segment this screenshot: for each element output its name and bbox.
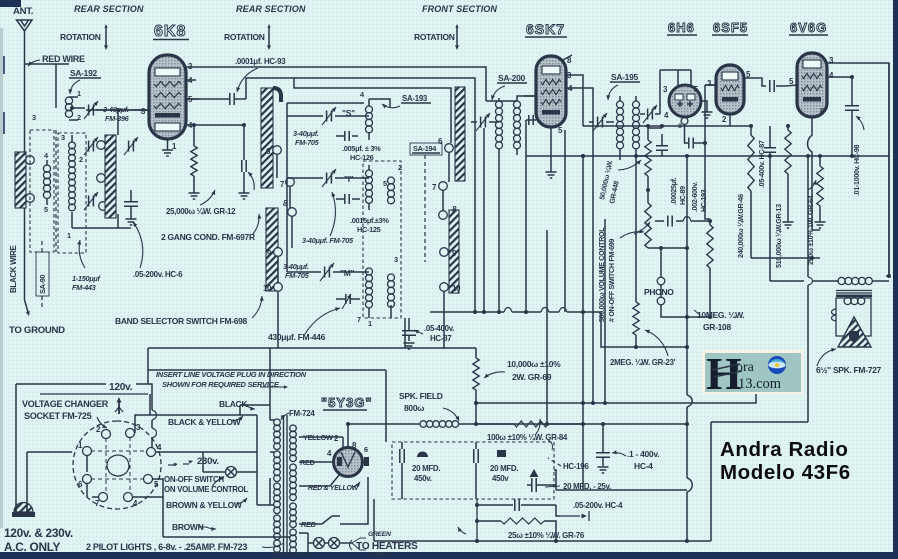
svg-text:5: 5 — [383, 179, 387, 188]
capacitor HC-87b — [764, 126, 776, 163]
svg-text:20 MFD.: 20 MFD. — [412, 464, 440, 473]
socket pin 7 — [95, 493, 108, 509]
svg-text:HC-196: HC-196 — [563, 462, 589, 471]
antenna shield plate — [15, 152, 26, 208]
label .005uf HC-126 — [342, 144, 381, 162]
svg-text:10: 10 — [263, 284, 272, 293]
label tube 6SF5 — [712, 20, 748, 35]
dashed box RF coil — [58, 133, 86, 253]
label 120v — [109, 382, 133, 393]
pin 4 of 6SK7 — [566, 84, 593, 156]
coil IF2 sec — [633, 101, 640, 149]
pin 4 antenna box — [44, 151, 49, 160]
svg-text:TO HEATERS: TO HEATERS — [356, 541, 418, 552]
wire 6H6 top bus — [660, 70, 691, 114]
svg-text:.05-400v.: .05-400v. — [424, 324, 454, 333]
svg-text:.002-600v.: .002-600v. — [692, 182, 699, 212]
pin 5 I — [383, 179, 387, 188]
label RED YELLOW — [308, 482, 360, 492]
tube 5Y3G — [334, 448, 370, 477]
coil primary C — [274, 483, 281, 514]
label GREEN b — [352, 543, 391, 559]
pin 5 of 6H6 — [691, 70, 699, 94]
trimmer M — [320, 263, 334, 281]
pin 3 antenna box — [32, 113, 36, 122]
tube 6K8 — [149, 55, 186, 139]
label 230v — [197, 456, 219, 467]
pilot lamp switch — [226, 467, 237, 478]
svg-text:.05-400v. HC-87: .05-400v. HC-87 — [758, 140, 766, 188]
svg-text:REAR SECTION: REAR SECTION — [236, 4, 306, 14]
svg-text:6K8: 6K8 — [154, 23, 186, 40]
shield plate det lower — [449, 210, 459, 293]
svg-text:REAR SECTION: REAR SECTION — [74, 4, 144, 14]
phono jack upper — [657, 277, 665, 285]
wire chassis bus y348 — [148, 347, 476, 349]
label ROTATION right — [414, 32, 455, 42]
phono pickup arrow — [560, 511, 589, 521]
resistor GR-108 — [687, 221, 713, 319]
svg-text:SA-90: SA-90 — [38, 275, 47, 294]
svg-text:.00025μf.: .00025μf. — [671, 177, 678, 205]
trimmer IF2 right — [643, 105, 657, 123]
wire bottom bus y541 — [374, 539, 711, 543]
svg-text:SA-193: SA-193 — [402, 94, 428, 103]
svg-text:SOCKET FM-725: SOCKET FM-725 — [24, 411, 92, 421]
pin 3 of 6SK7 — [566, 71, 583, 126]
wire B+ bus y424 — [476, 422, 687, 426]
svg-text:3: 3 — [32, 113, 36, 122]
wire socket net — [87, 394, 290, 537]
capacitor 6V6 grid coupling — [770, 80, 786, 92]
label M — [340, 268, 354, 278]
wire pin3 bus — [199, 67, 486, 101]
label GREEN a — [352, 531, 391, 543]
wire vert x526 — [524, 120, 528, 314]
pin 2 of 6SF5 — [722, 114, 730, 126]
svg-text:25,000ω ¼W. GR-12: 25,000ω ¼W. GR-12 — [166, 207, 236, 216]
watermark Hora H13.com — [702, 348, 803, 399]
label .002-600v HC-193 — [692, 182, 708, 212]
pin 2 RF coil — [79, 155, 83, 164]
arrow 230v a — [168, 463, 178, 467]
dashed box antenna coil — [30, 130, 54, 252]
svg-text:450v: 450v — [492, 474, 509, 483]
svg-text:800ω: 800ω — [404, 403, 424, 413]
svg-text:SA-200: SA-200 — [498, 73, 526, 83]
pin 8 of 6V6G — [808, 107, 826, 230]
volume control pot — [634, 190, 689, 250]
wire 6SK7 cathode — [550, 127, 552, 172]
label RED WIRE — [28, 54, 85, 66]
svg-text:# ON-OFF SWITCH FM-699: # ON-OFF SWITCH FM-699 — [608, 239, 616, 322]
svg-text:10MEG. ¼W.: 10MEG. ¼W. — [697, 310, 744, 320]
svg-text:6: 6 — [364, 445, 368, 454]
label 3-40uuf FM-396 — [103, 105, 130, 123]
svg-text:ora: ora — [736, 360, 755, 375]
svg-text:RED WIRE: RED WIRE — [42, 54, 85, 64]
wire antenna coil to trimmer — [72, 108, 149, 110]
resistor GR-448 — [645, 128, 651, 190]
svg-text:120v.: 120v. — [109, 382, 133, 393]
label 2 GANG COND FM-697R — [161, 214, 261, 242]
pin 8 of 6K8 — [138, 107, 149, 116]
label REAR SECTION left — [74, 4, 144, 14]
wire AVC bus — [430, 154, 689, 490]
pin 5 antenna box — [44, 205, 48, 214]
wire I section — [287, 165, 369, 210]
resistor GR-23 — [633, 154, 639, 347]
coil I left — [366, 170, 373, 203]
svg-text:2: 2 — [79, 155, 83, 164]
wire screen bus y156 — [526, 124, 889, 192]
svg-text:6SF5: 6SF5 — [713, 20, 748, 35]
wire y404 bus — [474, 392, 756, 405]
trimmer IF2 left — [593, 113, 607, 131]
wire screen step — [294, 78, 475, 122]
label SA-195 — [606, 72, 640, 100]
RF shield plate — [105, 135, 116, 218]
svg-text:SPK. FIELD: SPK. FIELD — [399, 391, 443, 401]
svg-text:A.C. ONLY: A.C. ONLY — [4, 540, 61, 554]
dashed link SA-90 — [41, 238, 43, 310]
svg-text:3: 3 — [394, 255, 398, 264]
label 10000 GR-69 — [484, 359, 561, 382]
pin 3 RF coil — [61, 133, 65, 142]
wire vert x565 — [564, 130, 566, 312]
pin 8 of 6SK7 — [563, 55, 572, 65]
svg-text:6V6G: 6V6G — [790, 20, 827, 35]
wire RF net — [72, 110, 149, 228]
label 240000 GR-46 — [737, 194, 745, 258]
wire 6V6 cathode net — [751, 230, 820, 260]
trimmer capacitor FM-396 — [84, 101, 98, 119]
socket pin 8 — [124, 493, 139, 509]
coil output primary — [838, 277, 889, 284]
pin 5 of 6SK7 — [558, 126, 563, 135]
contact 9 osc — [267, 248, 282, 258]
pin 2 I — [398, 163, 402, 172]
pin 1 of 6K8 — [168, 139, 178, 151]
label YELLOW — [303, 433, 336, 442]
resistor GR-64 — [817, 156, 823, 222]
coil secondary HV2 — [290, 464, 297, 501]
label I — [344, 174, 354, 184]
label SA-194 — [410, 143, 442, 155]
ground under HC-87 — [404, 343, 415, 349]
label SA-193 — [382, 94, 431, 108]
svg-text:ANT.: ANT. — [13, 6, 33, 17]
label 120v 230v AC ONLY — [4, 526, 73, 554]
voltage changer socket FM-725 — [73, 421, 161, 509]
label .05-400v HC-87 — [414, 324, 454, 343]
coil RF secondary — [69, 135, 76, 228]
svg-text:.01-1000v. HC-98: .01-1000v. HC-98 — [853, 144, 861, 196]
pin 2 of 5Y3G — [334, 434, 339, 443]
label Andra Radio — [720, 438, 848, 461]
trimmer 2gang top — [124, 137, 138, 155]
contact 8 osc — [283, 199, 296, 216]
power transformer core — [284, 415, 288, 556]
wire y490 bus — [554, 470, 687, 490]
label ROTATION left — [60, 32, 101, 42]
wire M section — [287, 272, 391, 318]
svg-text:230v.: 230v. — [197, 456, 219, 467]
label tube 6SK7 — [525, 21, 567, 37]
coil secondary fil — [290, 503, 297, 528]
svg-text:120v. & 230v.: 120v. & 230v. — [4, 526, 73, 540]
svg-text:1: 1 — [77, 89, 81, 98]
pin 4 of 6K8 — [186, 76, 196, 85]
coil antenna primary — [65, 97, 78, 120]
pilot light 2 — [329, 538, 340, 549]
ground under mixer cap — [239, 193, 250, 199]
pin 2 of 6SK7 — [524, 95, 536, 97]
label 2 PILOT LIGHTS — [86, 542, 284, 552]
label FM-724 — [281, 409, 315, 420]
wire left drop — [147, 348, 149, 384]
wire top right bus — [838, 63, 889, 276]
label tube 5Y3G — [321, 395, 373, 410]
coil in antenna box — [43, 160, 50, 205]
rotation arrow mid — [267, 24, 271, 50]
resistor GR-12 — [191, 125, 197, 193]
coil primary D — [274, 515, 281, 540]
svg-text:ROTATION: ROTATION — [414, 32, 455, 42]
wire to ground arrow — [25, 300, 30, 316]
label Modelo 43F6 — [720, 461, 851, 484]
ground under HC-6 — [126, 219, 137, 225]
label PHONO — [644, 287, 674, 297]
wire vert x605 — [603, 219, 607, 405]
svg-text:GREEN: GREEN — [368, 552, 391, 559]
svg-text:.0001μf. HC-93: .0001μf. HC-93 — [235, 57, 286, 66]
coil voice — [844, 297, 865, 304]
wire antenna net — [25, 64, 70, 252]
label RED b — [301, 520, 322, 529]
svg-text:.05-200v. HC-6: .05-200v. HC-6 — [133, 270, 183, 279]
label 150uuf FM-443 — [72, 240, 101, 292]
svg-text:450v.: 450v. — [414, 474, 432, 483]
wire left col — [16, 384, 72, 503]
capacitor FM-446 padder — [336, 294, 360, 309]
speaker cone — [838, 317, 871, 347]
pin 4b of 6K8 — [186, 121, 246, 146]
capacitor HC-125 — [336, 194, 360, 204]
pin 6 of 5Y3G — [364, 445, 368, 454]
rotation arrow right — [455, 24, 459, 50]
pin 7 M — [357, 315, 361, 324]
capacitor HC-87 det — [402, 318, 416, 341]
border frame right bar — [893, 0, 898, 559]
svg-text:FM-705: FM-705 — [295, 138, 320, 147]
pin 8 of 5Y3G — [352, 441, 357, 450]
dashed pointer SA-194 — [424, 155, 426, 262]
coil secondary HV1 — [290, 425, 297, 462]
label 25000 GR-12 — [166, 190, 236, 216]
label TO GROUND — [9, 325, 65, 336]
label 2MEG GR-23 — [610, 330, 676, 367]
wire plate bus y126 — [583, 124, 753, 128]
svg-text:.005μf. ± 3%: .005μf. ± 3% — [342, 144, 381, 153]
ground under HC-4 — [598, 467, 609, 473]
label ANT. — [13, 6, 33, 17]
svg-text:BAND SELECTOR SWITCH FM-698: BAND SELECTOR SWITCH FM-698 — [115, 316, 248, 326]
pin 5 of 6SF5 — [744, 70, 757, 79]
coil speaker field — [360, 421, 476, 428]
svg-text:10: 10 — [452, 284, 461, 293]
label VOLTAGE CHANGER SOCKET — [22, 399, 109, 428]
svg-text:SA-195: SA-195 — [611, 72, 639, 82]
svg-text:2MEG. ¼W. GR-23': 2MEG. ¼W. GR-23' — [610, 358, 676, 367]
label RED a — [300, 458, 315, 467]
label 10MEG GR-108 — [694, 310, 744, 332]
ground right of 6H6 — [702, 112, 713, 118]
capacitor 20MFD C — [527, 469, 556, 492]
label .0001uf HC-93 — [235, 57, 286, 92]
svg-text:3: 3 — [61, 133, 65, 142]
wire 5Y3G plates — [299, 422, 362, 486]
svg-text:430μμf. FM-446: 430μμf. FM-446 — [268, 332, 326, 342]
plug direction arrow — [115, 397, 123, 414]
tube 6H6 — [669, 85, 701, 117]
svg-text:SHOWN FOR REQUIRED SERVICE: SHOWN FOR REQUIRED SERVICE — [162, 380, 280, 389]
wire det section — [405, 152, 449, 348]
phono jack lower — [657, 297, 665, 305]
label BLACK WIRE — [9, 245, 18, 293]
socket center key — [91, 437, 147, 493]
capacitor HC-126 — [336, 131, 358, 141]
tube 6SK7 — [536, 56, 566, 127]
wire B+ to output transformer — [806, 154, 813, 422]
rotation arrow left — [104, 24, 108, 50]
label .01-1000v HC-98 — [853, 116, 864, 196]
socket pin 2 — [96, 425, 111, 439]
label tube 6H6 — [667, 20, 697, 35]
svg-text:"M": "M" — [340, 268, 354, 278]
svg-text:3-40μμf.: 3-40μμf. — [283, 262, 309, 271]
pin 5 of 6V6G — [786, 77, 797, 86]
label 20MFD 450v B — [490, 464, 518, 483]
svg-text:20 MFD.: 20 MFD. — [490, 464, 518, 473]
wire section box y370 — [148, 370, 386, 442]
svg-text:100ω ±10% ¼W. GR-84: 100ω ±10% ¼W. GR-84 — [487, 433, 568, 442]
label FRONT SECTION — [422, 4, 497, 14]
tube 6V6G — [797, 53, 827, 117]
junction RF — [70, 106, 120, 112]
label S — [342, 108, 355, 118]
resistor GR-69 — [473, 348, 479, 426]
wire IF2 — [589, 96, 660, 160]
coil M left — [366, 268, 373, 308]
socket pin 6 — [78, 475, 92, 490]
coil I right — [388, 177, 395, 204]
resistor GR-13 — [785, 126, 791, 222]
svg-text:2W. GR-69: 2W. GR-69 — [512, 372, 552, 382]
svg-text:BLACK: BLACK — [219, 399, 248, 409]
label 250 GR-64 — [807, 180, 817, 265]
wire det plumbing — [648, 128, 710, 219]
shield plate det upper — [455, 87, 465, 181]
label 500000 VOLUME CONTROL FM-699 — [598, 227, 644, 322]
coil M right — [388, 274, 395, 307]
svg-text:TO GROUND: TO GROUND — [9, 325, 65, 336]
svg-text:HC-125: HC-125 — [357, 225, 381, 234]
capacitor HC-89 — [656, 134, 668, 156]
capacitor AF coupling — [655, 216, 712, 227]
label BROWN YELLOW — [166, 498, 247, 510]
contact 7 osc — [280, 178, 294, 189]
svg-text:13.com: 13.com — [738, 376, 782, 392]
pin 3 M — [394, 255, 398, 264]
svg-text:1: 1 — [67, 231, 71, 240]
wire x556 riser — [374, 499, 479, 541]
label TO HEATERS — [350, 540, 419, 552]
socket pin 5 — [144, 475, 160, 490]
svg-text:7: 7 — [357, 315, 361, 324]
trimmer I — [322, 169, 336, 187]
wire 6SF5 plate — [757, 78, 766, 86]
capacitor HC-4 .1-400 — [596, 424, 610, 466]
coil secondary fil2 — [290, 529, 297, 554]
label 3-40uuf FM-705 M — [283, 262, 310, 280]
label SA-192 — [68, 68, 101, 94]
wire plate step — [246, 78, 451, 143]
svg-text:1: 1 — [368, 319, 372, 328]
wire S section — [287, 99, 390, 272]
coil primary B — [274, 451, 281, 482]
contact 6 osc — [266, 146, 281, 156]
svg-text:FRONT SECTION: FRONT SECTION — [422, 4, 497, 14]
capacitor HC-6 — [124, 190, 138, 219]
label 6.5 SPK FM-727 — [816, 348, 882, 375]
wire IF1 — [471, 96, 536, 314]
contact circle gang 3 — [99, 202, 108, 211]
wire xfmr primary — [270, 348, 274, 505]
contact 6 det — [438, 137, 453, 152]
pin 3 of 6K8 — [186, 62, 199, 71]
ground under 6K8 — [162, 150, 173, 156]
label .0015uf HC-125 — [350, 216, 389, 234]
svg-text:240,000ω ¼W.GR-46: 240,000ω ¼W.GR-46 — [737, 194, 745, 258]
contact 10 osc — [263, 283, 282, 293]
wire band sw bottom — [277, 291, 279, 348]
svg-text:ON VOLUME CONTROL: ON VOLUME CONTROL — [164, 485, 249, 494]
contact circle gang 1 — [97, 141, 106, 150]
label BAND SELECTOR SWITCH FM-698 — [115, 296, 264, 326]
speaker frame — [836, 298, 871, 336]
wire y516 — [556, 505, 560, 516]
pin 8 of 6H6 — [678, 118, 688, 143]
wire 120v line — [16, 384, 157, 448]
pin 1 antenna coil — [77, 89, 81, 98]
ground under GR-13 — [783, 222, 794, 228]
ground under GR-12 — [189, 193, 200, 199]
pin 4 of 6V6G — [827, 71, 838, 80]
trimmer IF1 left — [476, 113, 490, 131]
svg-text:GR-108: GR-108 — [703, 322, 731, 332]
output transformer core — [836, 291, 872, 298]
shield plate osc lower — [266, 208, 278, 291]
contact on antenna shield — [26, 156, 35, 165]
label 430uuf FM-446 — [268, 307, 340, 342]
capacitor HC-193 — [686, 138, 705, 149]
svg-text:HC-87: HC-87 — [430, 334, 452, 343]
svg-text:Modelo 43F6: Modelo 43F6 — [720, 461, 851, 484]
trimmer gang A — [84, 137, 98, 155]
svg-text:6H6: 6H6 — [668, 20, 695, 35]
label BROWN — [172, 522, 216, 532]
